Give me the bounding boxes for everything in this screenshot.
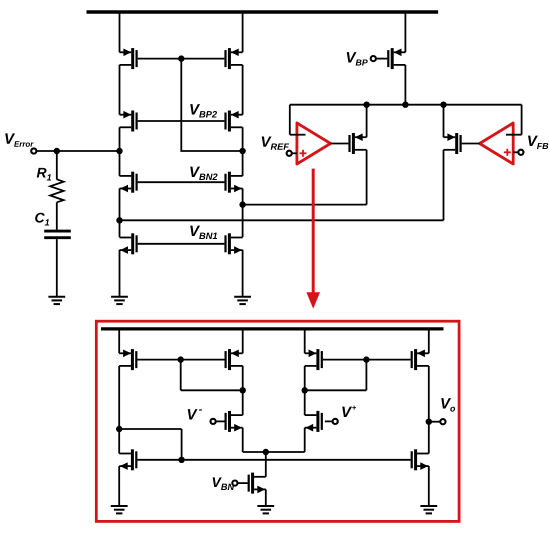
node dot mid right xyxy=(440,102,446,108)
ground right column xyxy=(234,297,251,304)
node dot mid center xyxy=(402,102,408,108)
pmos M4 (row2 right) xyxy=(224,111,242,132)
wire right amp minus stub xyxy=(506,134,522,136)
wire left branch to gate drop xyxy=(119,428,181,430)
node dot right gate line xyxy=(363,356,369,362)
label VREF xyxy=(262,136,289,149)
node dot MA3 drain xyxy=(302,387,308,393)
label VBN xyxy=(213,477,235,490)
wire MB1 source to ground xyxy=(265,489,267,506)
wire M1 drain to M3 source xyxy=(119,65,121,115)
wire node B to M11 drain xyxy=(120,219,444,221)
op-amp A2 (VFB buffer) xyxy=(480,123,514,164)
plus sign A1 xyxy=(300,150,307,157)
wire tail line xyxy=(243,451,305,453)
label VBP xyxy=(347,52,368,65)
wire VBN gate lead xyxy=(238,482,248,484)
ground center box xyxy=(257,506,274,513)
wire A1 output xyxy=(331,143,349,145)
red detail box xyxy=(96,321,459,521)
wire MA1-MA2 gate line xyxy=(137,359,224,361)
pmos MA2 xyxy=(225,349,243,370)
wire rail to MA1 xyxy=(118,331,120,354)
resistor R1 xyxy=(50,179,63,202)
wire MB2 source to ground xyxy=(118,466,120,506)
wire R1 to C1 xyxy=(56,202,58,229)
wire node C to M10 drain xyxy=(243,204,367,206)
op-amp A1 (VREF buffer) xyxy=(297,123,331,164)
wire Vminus gate lead xyxy=(216,420,225,422)
node dot R1 tap xyxy=(54,148,60,154)
node dot row1 gates xyxy=(178,55,184,61)
nmos MD1 (V- input) xyxy=(225,411,243,432)
wire M9 drain to mid line xyxy=(404,65,406,105)
wire VError node to M6 drain xyxy=(242,151,244,176)
node dot right column at VError line xyxy=(239,148,245,154)
terminal VBP xyxy=(371,56,376,61)
wire row1 gate line xyxy=(138,58,225,60)
wire MA1 drain vertical xyxy=(118,366,120,454)
wire VError node down to R1 xyxy=(56,151,58,180)
nmos MB1 (tail source) xyxy=(248,473,266,494)
wire right amp feedback down xyxy=(521,105,523,135)
wire row1 gates down then right to right column xyxy=(181,59,242,151)
label VBN2 xyxy=(190,167,217,180)
pmos M11 (right follower) xyxy=(444,133,462,154)
pmos M3 (row2 left, VBP2) xyxy=(120,111,138,132)
wire C1 to ground xyxy=(56,239,58,297)
wire A2 output xyxy=(462,143,480,145)
wire M7 source to ground xyxy=(119,250,121,297)
wire M11 source up xyxy=(443,105,445,138)
wire MA4 drain vertical xyxy=(428,366,430,454)
wire M2 drain to M4 source xyxy=(242,65,244,115)
label C1 xyxy=(35,213,49,226)
ground under C1 xyxy=(48,297,65,304)
wire VError line xyxy=(37,150,120,152)
wire mid node line xyxy=(290,104,522,106)
node C dot xyxy=(239,201,245,207)
label Vo xyxy=(441,398,455,411)
wire row3 gate line VBN2 xyxy=(138,181,225,183)
wire M3 drain to VError node xyxy=(119,127,121,151)
wire M5 source to node B xyxy=(119,189,121,221)
label Vplus xyxy=(342,406,356,417)
node B dot xyxy=(116,217,122,223)
terminal Vplus xyxy=(333,419,338,424)
wire M11 drain down xyxy=(443,150,445,221)
wire M8 source to ground xyxy=(242,250,244,297)
pmos MA3 xyxy=(305,349,323,370)
terminal VFB xyxy=(518,150,523,155)
terminal VBN xyxy=(232,481,237,486)
wire rail to MA2 xyxy=(242,331,244,354)
node dot MA2 drain xyxy=(240,387,246,393)
wire VFB stub xyxy=(513,151,518,153)
wire bottom nmos gate line xyxy=(137,459,410,461)
label VFB xyxy=(528,136,548,149)
wire Vo stub xyxy=(429,421,440,423)
wire M4 drain to VError node xyxy=(242,127,244,151)
nmos MB3 (bottom right) xyxy=(411,449,429,470)
wire MA3 drain vertical xyxy=(304,366,306,415)
wire tail down to MB1 xyxy=(265,452,267,477)
wire left amp feedback down xyxy=(289,105,291,135)
wire VError node to M5 drain xyxy=(119,151,121,176)
ground right box xyxy=(420,506,437,513)
pmos M2 (row1 right) xyxy=(224,48,242,69)
wire right column from rail xyxy=(242,13,244,52)
wire left gate to MA2 drain xyxy=(181,389,243,391)
wire VBP gate lead xyxy=(376,58,387,60)
nmos M5 (row3 left, VBN2) xyxy=(120,172,138,193)
pmos M9 (VBP) xyxy=(387,48,405,69)
node dot left column at VError line xyxy=(116,148,122,154)
wire left amp minus stub xyxy=(290,134,306,136)
node dot left gate line xyxy=(178,356,184,362)
pmos MA4 xyxy=(411,349,429,370)
wire MD1 source down xyxy=(242,428,244,452)
wire MA2 drain vertical xyxy=(242,366,244,415)
wire M9 source from rail xyxy=(404,13,406,52)
ground left box xyxy=(111,506,128,513)
wire row2 gate line VBP2 xyxy=(138,120,225,122)
label R1 xyxy=(37,168,51,181)
pmos M1 (row1 left) xyxy=(120,48,138,69)
nmos MD2 (V+ input) xyxy=(305,411,323,432)
wire M10 drain down xyxy=(366,150,368,205)
wire rail to MA4 xyxy=(428,331,430,354)
wire M10 source up xyxy=(366,105,368,138)
node dot Vo xyxy=(426,419,432,425)
nmos M6 (row3 right) xyxy=(224,172,242,193)
pmos MA1 xyxy=(119,349,137,370)
terminal VError xyxy=(31,148,36,153)
wire MD2 source down xyxy=(304,428,306,452)
terminal Vminus xyxy=(211,419,216,424)
wire left gate line down xyxy=(180,360,182,391)
terminal Vo xyxy=(440,419,445,424)
pmos M10 (left follower) xyxy=(348,133,366,154)
wire MB3 source to ground xyxy=(428,466,430,506)
node dot tail xyxy=(263,449,269,455)
nmos M7 (row4 left, VBN1) xyxy=(120,233,138,254)
nmos MB2 (bottom left) xyxy=(119,449,137,470)
plus sign A2 xyxy=(504,149,511,156)
wire M6 source to node C xyxy=(242,189,244,238)
wire node B to M7 drain xyxy=(119,220,121,237)
wire gate drop vertical xyxy=(181,429,183,460)
wire right gate line down xyxy=(365,360,367,391)
wire Vplus gate lead xyxy=(325,420,332,422)
power rail VDD xyxy=(87,10,439,14)
ground left column xyxy=(111,297,128,304)
node dot mid left xyxy=(363,102,369,108)
red arrow to amplifier detail xyxy=(306,169,320,309)
wire right gate to MA3 drain xyxy=(305,389,367,391)
node dot left branch xyxy=(116,426,122,432)
terminal VREF xyxy=(287,151,292,156)
wire rail to MA3 xyxy=(304,331,306,354)
wire row4 gate line VBN1 xyxy=(138,243,225,245)
label VError xyxy=(5,133,33,146)
label VBP2 xyxy=(190,104,217,117)
wire MA3-MA4 gate line xyxy=(323,359,411,361)
label Vminus xyxy=(188,409,202,419)
power rail inside box xyxy=(101,327,444,330)
wire left column from rail xyxy=(119,13,121,52)
node dot on nmos gate line xyxy=(178,457,184,463)
wire VREF stub xyxy=(292,152,297,154)
label VBN1 xyxy=(190,226,217,239)
capacitor C1 xyxy=(44,231,71,238)
nmos M8 (row4 right) xyxy=(224,233,242,254)
